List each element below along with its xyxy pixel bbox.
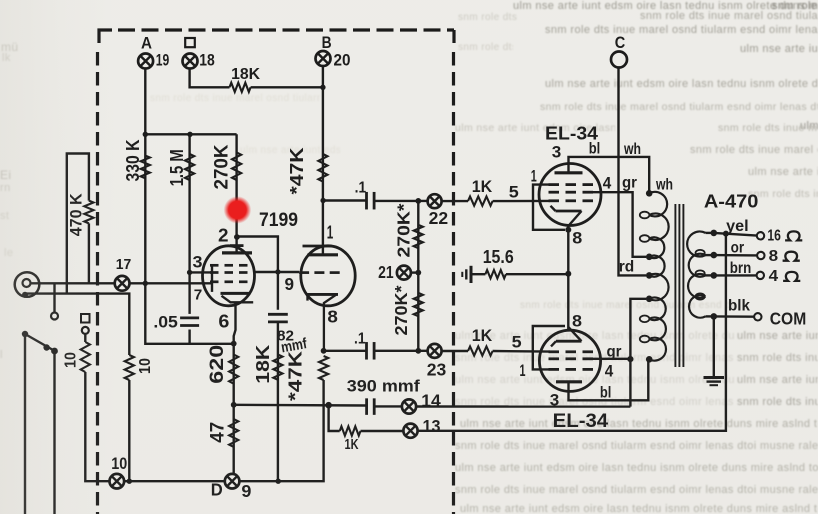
svg-text:bl: bl: [589, 140, 601, 157]
svg-text:13: 13: [423, 416, 441, 436]
svg-text:C: C: [615, 34, 626, 52]
svg-text:4: 4: [605, 361, 614, 380]
svg-text:9: 9: [284, 274, 294, 294]
svg-text:23: 23: [427, 360, 447, 380]
svg-text:330 K: 330 K: [123, 140, 143, 182]
svg-text:.1: .1: [355, 179, 367, 196]
svg-text:gr: gr: [622, 175, 637, 192]
svg-text:.1: .1: [354, 331, 366, 348]
svg-text:5: 5: [512, 333, 522, 352]
svg-text:6: 6: [218, 311, 229, 332]
svg-text:brn: brn: [730, 260, 752, 277]
svg-text:10: 10: [111, 454, 127, 473]
svg-text:1: 1: [327, 221, 334, 242]
svg-text:9: 9: [241, 481, 251, 501]
svg-text:1K: 1K: [472, 177, 493, 196]
svg-text:21: 21: [378, 262, 394, 282]
svg-text:1K: 1K: [472, 326, 493, 345]
svg-text:390 mmf: 390 mmf: [347, 378, 421, 396]
svg-text:COM: COM: [770, 309, 807, 329]
svg-text:2: 2: [218, 225, 229, 246]
svg-text:270K*: 270K*: [391, 285, 411, 335]
svg-text:4: 4: [769, 268, 779, 285]
svg-text:8: 8: [769, 248, 779, 265]
svg-text:*47K: *47K: [286, 351, 306, 401]
svg-text:1K: 1K: [345, 436, 359, 453]
svg-text:*47K: *47K: [287, 148, 307, 195]
svg-text:3: 3: [552, 144, 562, 162]
svg-text:7199: 7199: [259, 209, 298, 231]
svg-text:gr: gr: [607, 343, 622, 360]
svg-text:8: 8: [572, 313, 582, 331]
svg-text:4: 4: [603, 174, 612, 193]
svg-text:8: 8: [572, 230, 582, 248]
svg-text:.05: .05: [153, 313, 178, 332]
svg-text:wh: wh: [623, 141, 641, 158]
svg-text:A-470: A-470: [704, 191, 759, 212]
svg-text:bl: bl: [600, 384, 612, 401]
svg-text:3: 3: [193, 253, 203, 271]
svg-text:16: 16: [767, 228, 781, 245]
svg-text:1.5 M: 1.5 M: [167, 149, 187, 186]
svg-text:A: A: [141, 33, 152, 52]
svg-text:1: 1: [520, 362, 526, 380]
svg-text:wh: wh: [655, 177, 673, 194]
svg-text:10: 10: [137, 358, 154, 374]
svg-text:620: 620: [206, 345, 228, 384]
svg-text:rd: rd: [619, 258, 635, 275]
svg-text:blk: blk: [728, 298, 750, 315]
svg-text:18K: 18K: [252, 344, 273, 384]
svg-text:D: D: [211, 480, 223, 500]
svg-text:20: 20: [334, 52, 351, 70]
svg-text:8: 8: [327, 307, 338, 327]
svg-text:18: 18: [199, 52, 215, 70]
svg-text:1: 1: [531, 168, 537, 186]
svg-text:5: 5: [509, 183, 519, 202]
svg-text:17: 17: [116, 257, 132, 273]
svg-text:or: or: [731, 240, 745, 257]
svg-text:22: 22: [429, 208, 449, 228]
svg-text:19: 19: [156, 51, 170, 69]
svg-text:10: 10: [63, 352, 80, 368]
svg-text:B: B: [322, 33, 332, 52]
svg-text:270K*: 270K*: [394, 203, 414, 257]
svg-text:15.6: 15.6: [483, 247, 514, 267]
svg-text:yel: yel: [726, 218, 749, 235]
svg-text:7: 7: [194, 286, 203, 303]
svg-text:270K: 270K: [212, 144, 233, 189]
svg-text:18K: 18K: [231, 66, 261, 83]
svg-text:470 K: 470 K: [67, 193, 86, 237]
svg-text:EL-34: EL-34: [553, 411, 609, 432]
svg-text:47: 47: [207, 422, 229, 443]
